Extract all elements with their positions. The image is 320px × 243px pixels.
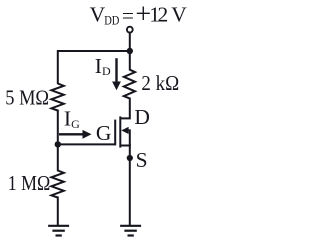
svg-text:S: S xyxy=(136,148,148,172)
wire top horizontal xyxy=(58,50,130,52)
svg-text:V: V xyxy=(171,2,187,26)
svg-text:=: = xyxy=(122,3,134,27)
wire left rail middle xyxy=(57,110,59,172)
node top junction xyxy=(127,48,133,54)
transistor Q1 channel line xyxy=(119,116,121,147)
ground right xyxy=(120,226,141,236)
svg-text:1 MΩ: 1 MΩ xyxy=(8,171,51,195)
wire left rail lower xyxy=(57,197,59,226)
svg-text:2 kΩ: 2 kΩ xyxy=(141,71,179,95)
wire source down xyxy=(129,145,131,226)
wire left rail upper xyxy=(57,50,59,84)
svg-text:D: D xyxy=(134,105,150,129)
wire drain vertical xyxy=(120,98,130,119)
wire gate horizontal xyxy=(58,143,115,145)
resistor RD 2 kohm zigzag xyxy=(124,70,135,99)
wire right rail to resistor RD xyxy=(129,51,131,71)
transistor Q1 source stub xyxy=(120,145,131,147)
svg-text:5 MΩ: 5 MΩ xyxy=(5,85,49,109)
node S xyxy=(127,155,133,161)
ground left xyxy=(48,226,69,236)
current arrow IG xyxy=(59,130,92,139)
current arrow ID xyxy=(112,58,121,90)
resistor R2 1 Mohm zigzag xyxy=(51,171,63,198)
wire VDD terminal to top junction xyxy=(129,33,131,51)
VDD terminal circle xyxy=(127,27,133,33)
svg-text:DD: DD xyxy=(104,12,119,27)
svg-text:V: V xyxy=(90,2,106,26)
transistor Q1 body arrow xyxy=(121,127,130,146)
transistor Q1 gate plate xyxy=(114,120,116,146)
VDD label = +12 V xyxy=(90,0,188,30)
resistor R1 5 Mohm zigzag xyxy=(51,84,63,111)
node gate junction xyxy=(55,141,61,147)
svg-text:12: 12 xyxy=(149,2,167,26)
svg-text:G: G xyxy=(96,121,112,145)
